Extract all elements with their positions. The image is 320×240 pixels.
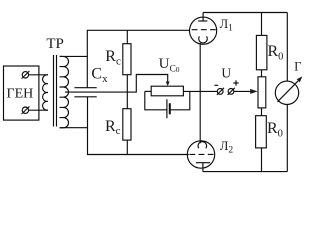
potentiometer U_C0	[151, 86, 183, 96]
anode rail bottom	[203, 171, 287, 173]
wire C_x bottom to bottom rail to L2 grid	[88, 97, 189, 155]
tube L1 grid	[192, 29, 216, 31]
wire potentiometer right lead to terminal	[183, 90, 217, 92]
wire secondary bottom lead	[60, 127, 88, 129]
terminal minus	[217, 89, 223, 95]
resistor R_c bottom	[123, 109, 131, 140]
svg-text:R0: R0	[267, 120, 283, 139]
wire generator top to primary	[29, 74, 48, 76]
resistor R0 top	[256, 35, 267, 69]
generator GEN box	[4, 66, 39, 120]
battery long plate	[166, 99, 168, 118]
minus sign	[214, 84, 218, 86]
wire rail to R_c top	[126, 30, 128, 43]
svg-text:Rc: Rc	[105, 48, 121, 67]
tube L1 envelope	[190, 17, 217, 44]
svg-text:Rc: Rc	[105, 118, 121, 137]
capacitor C_x bottom plate	[74, 96, 96, 98]
transformer core	[53, 55, 55, 127]
resistor R0 bottom	[256, 116, 267, 148]
svg-text:U: U	[221, 65, 231, 80]
wire galvanometer top	[286, 13, 288, 82]
svg-text:R0: R0	[268, 43, 284, 62]
battery short plate	[169, 103, 171, 114]
tube L2 envelope	[187, 141, 214, 168]
wire R0 bottom to bottom rail	[261, 148, 263, 172]
capacitor C_x top plate	[74, 87, 96, 89]
capacitor C_x middle electrode / center tap wire to wiper	[65, 75, 168, 93]
svg-text:UC0: UC0	[159, 56, 180, 74]
terminal plus	[228, 89, 234, 95]
svg-text:ТР: ТР	[46, 36, 64, 52]
tube L1 cathode	[199, 36, 208, 43]
wire potentiometer left lead	[145, 90, 151, 92]
generator terminal bottom	[22, 107, 28, 113]
svg-text:Л2: Л2	[220, 139, 233, 156]
galvanometer G	[275, 81, 298, 104]
svg-text:Cx: Cx	[91, 66, 108, 86]
svg-text:Г: Г	[294, 60, 301, 74]
wire cathode line L1 to L2	[199, 43, 201, 143]
svg-text:ГЕН: ГЕН	[7, 86, 34, 101]
anode rail top	[203, 12, 287, 14]
tube L2 cathode	[198, 142, 207, 149]
resistor R_c top	[123, 44, 131, 75]
wire secondary top lead	[60, 55, 88, 57]
wire galvanometer bottom	[286, 105, 288, 172]
tube L2 anode	[196, 162, 210, 164]
svg-text:Л1: Л1	[220, 17, 233, 34]
balance potentiometer	[258, 77, 266, 108]
wire R0 top to balance potentiometer	[261, 70, 263, 77]
wire with arrow to balance potentiometer	[234, 90, 251, 92]
generator terminal top	[22, 72, 28, 78]
wire R_c bottom to rail	[126, 140, 128, 154]
plus sign	[233, 82, 238, 84]
wire balance potentiometer to R0 bottom	[261, 108, 263, 116]
tube L2 grid	[189, 153, 213, 155]
tube L1 anode	[198, 20, 207, 22]
battery loop wire	[145, 91, 167, 109]
wire top rail to R0 top	[261, 13, 263, 36]
transformer TP secondary winding	[60, 56, 69, 127]
transformer TP primary winding	[43, 75, 48, 110]
wire generator bottom to primary	[29, 109, 48, 111]
wire R_c midpoint	[126, 75, 128, 109]
wire C_x top to top rail to L1 grid	[87, 30, 189, 87]
